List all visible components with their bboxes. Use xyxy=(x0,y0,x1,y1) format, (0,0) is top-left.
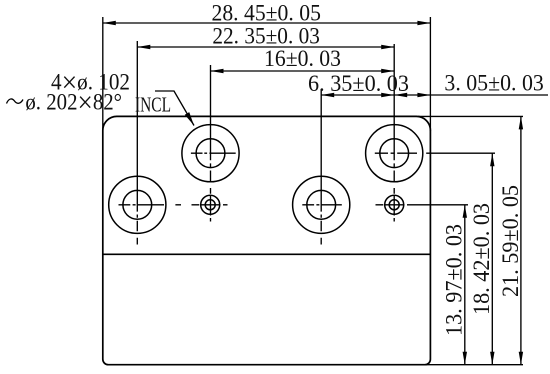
bottom extension line xyxy=(426,364,523,366)
center line H3 horizontal xyxy=(192,204,228,206)
center line H6 horizontal + 13.97 extension xyxy=(376,204,469,206)
extension+center line x=394 xyxy=(393,44,395,222)
dim line 21.59 vertical xyxy=(520,116,522,364)
dim line 13.97 vertical xyxy=(464,205,466,365)
center line H4 horizontal xyxy=(302,204,342,206)
top edge extension to 21.59 xyxy=(418,115,523,117)
hole H6 inner xyxy=(389,200,399,210)
svg-text:13. 97±0. 03: 13. 97±0. 03 xyxy=(442,224,467,336)
hole H4 lower-right countersink outer xyxy=(293,176,350,233)
extension line right edge x=430 xyxy=(429,17,431,131)
svg-text:ø. 202×82°: ø. 202×82° xyxy=(25,86,122,119)
hole H2 upper-left countersink outer xyxy=(182,125,239,182)
dim line 16 xyxy=(211,70,395,72)
hole H6 small right outer xyxy=(385,195,404,214)
hole H3 inner xyxy=(205,200,215,210)
dim line 28.45 xyxy=(103,22,431,24)
svg-text:3. 05±0. 03: 3. 05±0. 03 xyxy=(444,71,543,96)
dim line 22.35 xyxy=(137,46,394,48)
extension+center line x=137 xyxy=(136,41,138,245)
center line H1 horizontal xyxy=(119,204,182,206)
hole H2 inner xyxy=(196,139,225,168)
svg-text:21. 59±0. 05: 21. 59±0. 05 xyxy=(498,185,523,297)
dim line 3.05 with outward arrows and tail xyxy=(394,94,548,96)
hole H5 upper-right countersink outer xyxy=(366,125,423,182)
dim line 18.42 vertical xyxy=(491,153,493,365)
hole H4 inner xyxy=(307,190,336,219)
leader line to hole H2 xyxy=(155,91,194,126)
svg-text:22. 35±0. 03: 22. 35±0. 03 xyxy=(212,24,320,49)
note line 2 squiggle xyxy=(7,99,24,104)
svg-text:18. 42±0. 03: 18. 42±0. 03 xyxy=(469,203,494,315)
hole H1 inner xyxy=(123,190,152,219)
svg-text:28. 45±0. 05: 28. 45±0. 05 xyxy=(212,1,321,26)
svg-text:6. 35±0. 03: 6. 35±0. 03 xyxy=(308,71,409,96)
hole H1 lower-left countersink outer xyxy=(109,176,166,233)
extension line left edge x=103 xyxy=(102,17,104,131)
dim line 6.35 xyxy=(321,94,394,96)
center line H2 horizontal xyxy=(191,152,236,154)
part divider line xyxy=(103,253,431,255)
hole H3 small center-left outer xyxy=(201,195,220,214)
extension+center line x=321 xyxy=(320,89,322,245)
hole H5 inner xyxy=(380,139,409,168)
svg-text:16±0. 03: 16±0. 03 xyxy=(264,46,341,71)
center line H5 horizontal + 18.42 extension xyxy=(375,152,495,154)
extension+center line x=210.5 xyxy=(210,65,212,222)
part outline xyxy=(103,116,431,364)
svg-text:INCL: INCL xyxy=(135,93,171,117)
